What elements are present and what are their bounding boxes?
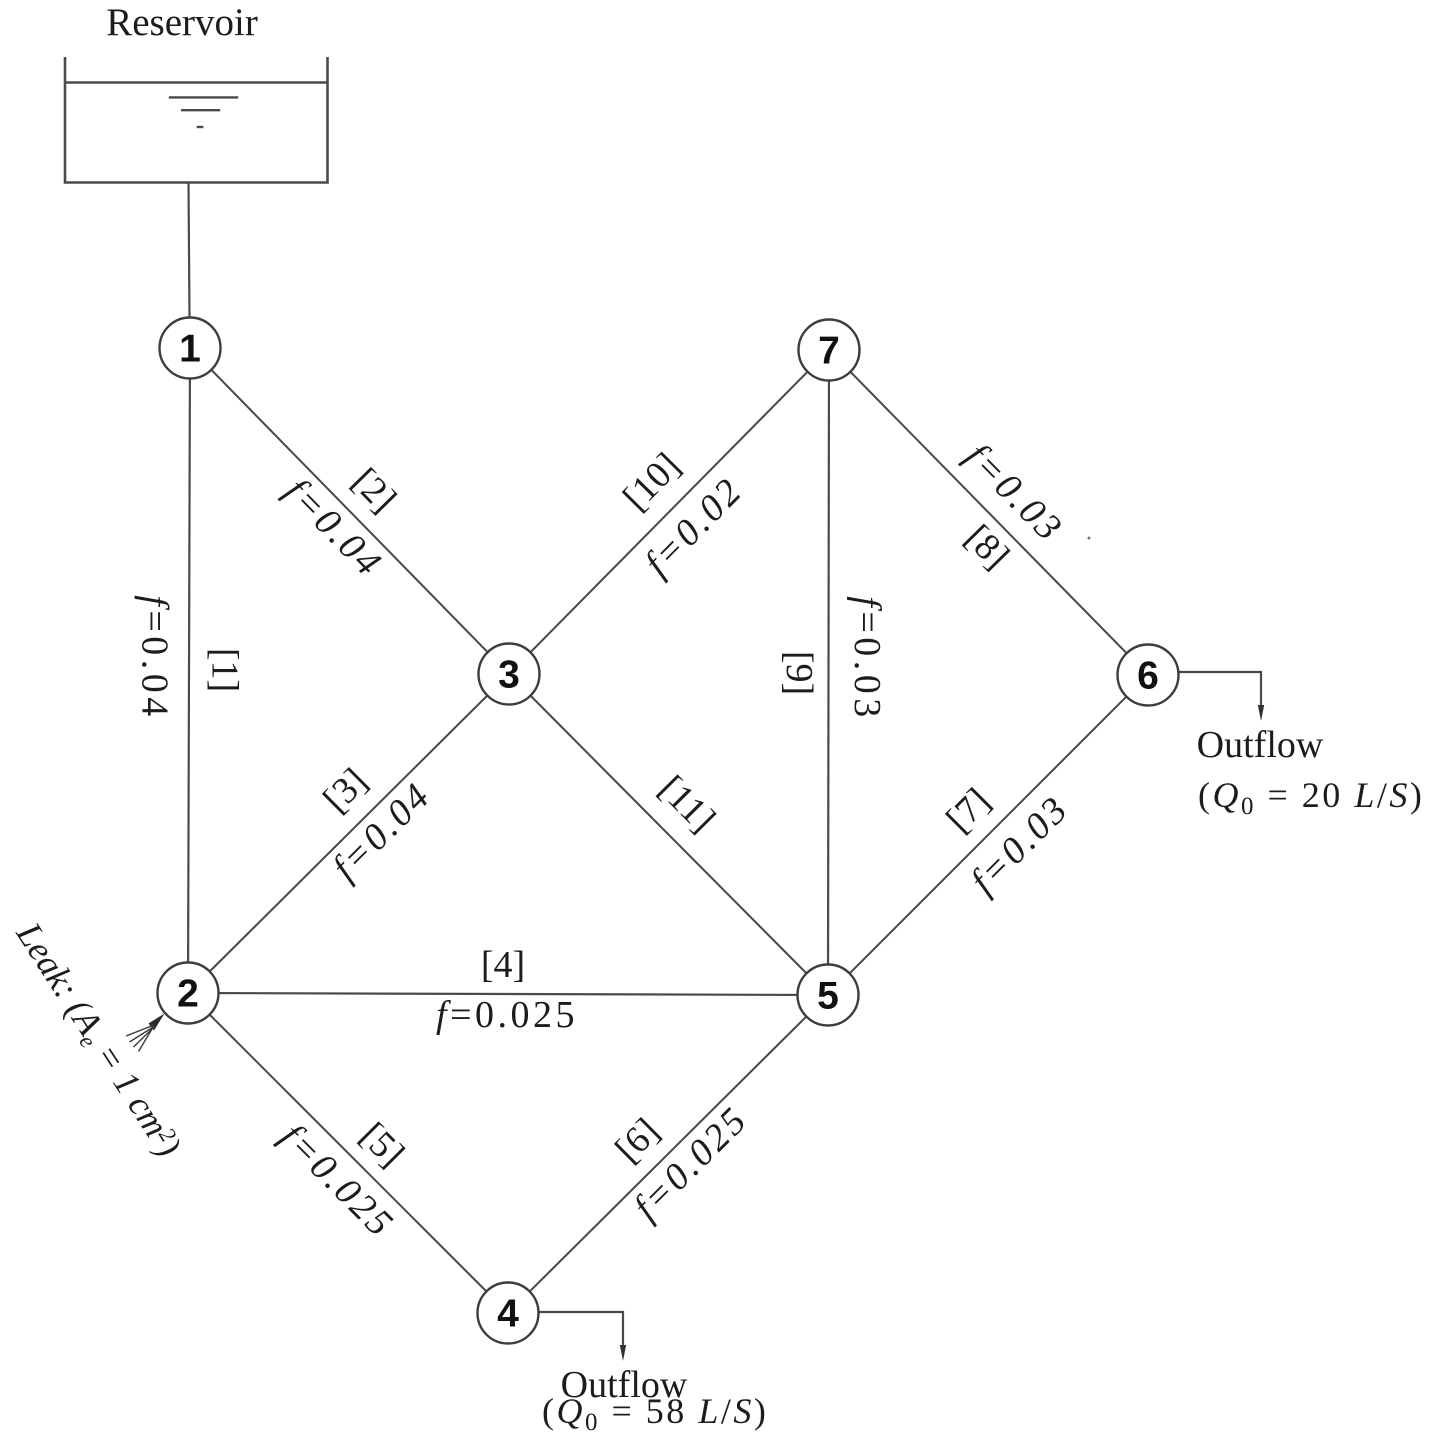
svg-text:4: 4 [497, 1293, 519, 1336]
svg-text:Reservoir: Reservoir [106, 1, 258, 44]
reservoir tank [65, 57, 328, 183]
pipe [8] node7-node6 [829, 350, 1148, 675]
pipe [3] node3-node2 [188, 674, 509, 993]
reservoir water-level marks [169, 97, 238, 127]
svg-text:[9]: [9] [778, 651, 820, 695]
svg-text:6: 6 [1137, 655, 1159, 698]
pipe [4] node2-node5 [188, 993, 828, 995]
node 5 [798, 965, 859, 1026]
pipe [9] node7-node5 [828, 350, 829, 995]
svg-text:7: 7 [818, 330, 840, 373]
pipe [7] node5-node6 [828, 675, 1148, 995]
svg-text:3: 3 [498, 654, 520, 697]
svg-text:f=0.04: f=0.04 [134, 595, 176, 721]
svg-text:1: 1 [179, 328, 201, 371]
outflow arrow node6 [1179, 672, 1261, 708]
svg-text:Outflow: Outflow [1197, 724, 1324, 766]
pipe [11] node3-node5 [509, 674, 828, 995]
svg-text:f=0.03: f=0.03 [846, 596, 888, 722]
pipe [2] node1-node3 [190, 348, 509, 674]
node 2 [158, 963, 219, 1024]
pipe [1] node1-node2 [188, 348, 190, 993]
svg-text:2: 2 [177, 973, 199, 1016]
stray dot artifact [1088, 537, 1091, 540]
node 7 [799, 320, 860, 381]
svg-text:(Q0 = 58 L/S): (Q0 = 58 L/S) [542, 1391, 768, 1436]
node 3 [479, 644, 540, 705]
svg-text:(Q0 = 20 L/S): (Q0 = 20 L/S) [1198, 775, 1424, 820]
svg-text:5: 5 [817, 975, 839, 1018]
pipe [6] node4-node5 [508, 995, 828, 1313]
pipe [10] node3-node7 [509, 350, 829, 674]
pipe [5] node2-node4 [188, 993, 508, 1313]
node 1 [160, 318, 221, 379]
pipe reservoir to node 1 [189, 183, 190, 319]
outflow arrow node4 [538, 1312, 623, 1348]
node 6 [1118, 645, 1179, 706]
node 4 [478, 1283, 539, 1344]
svg-text:[4]: [4] [481, 944, 525, 986]
svg-text:f=0.025: f=0.025 [436, 994, 578, 1036]
svg-text:[1]: [1] [204, 648, 246, 692]
leak arrow at node2 [126, 1014, 165, 1052]
